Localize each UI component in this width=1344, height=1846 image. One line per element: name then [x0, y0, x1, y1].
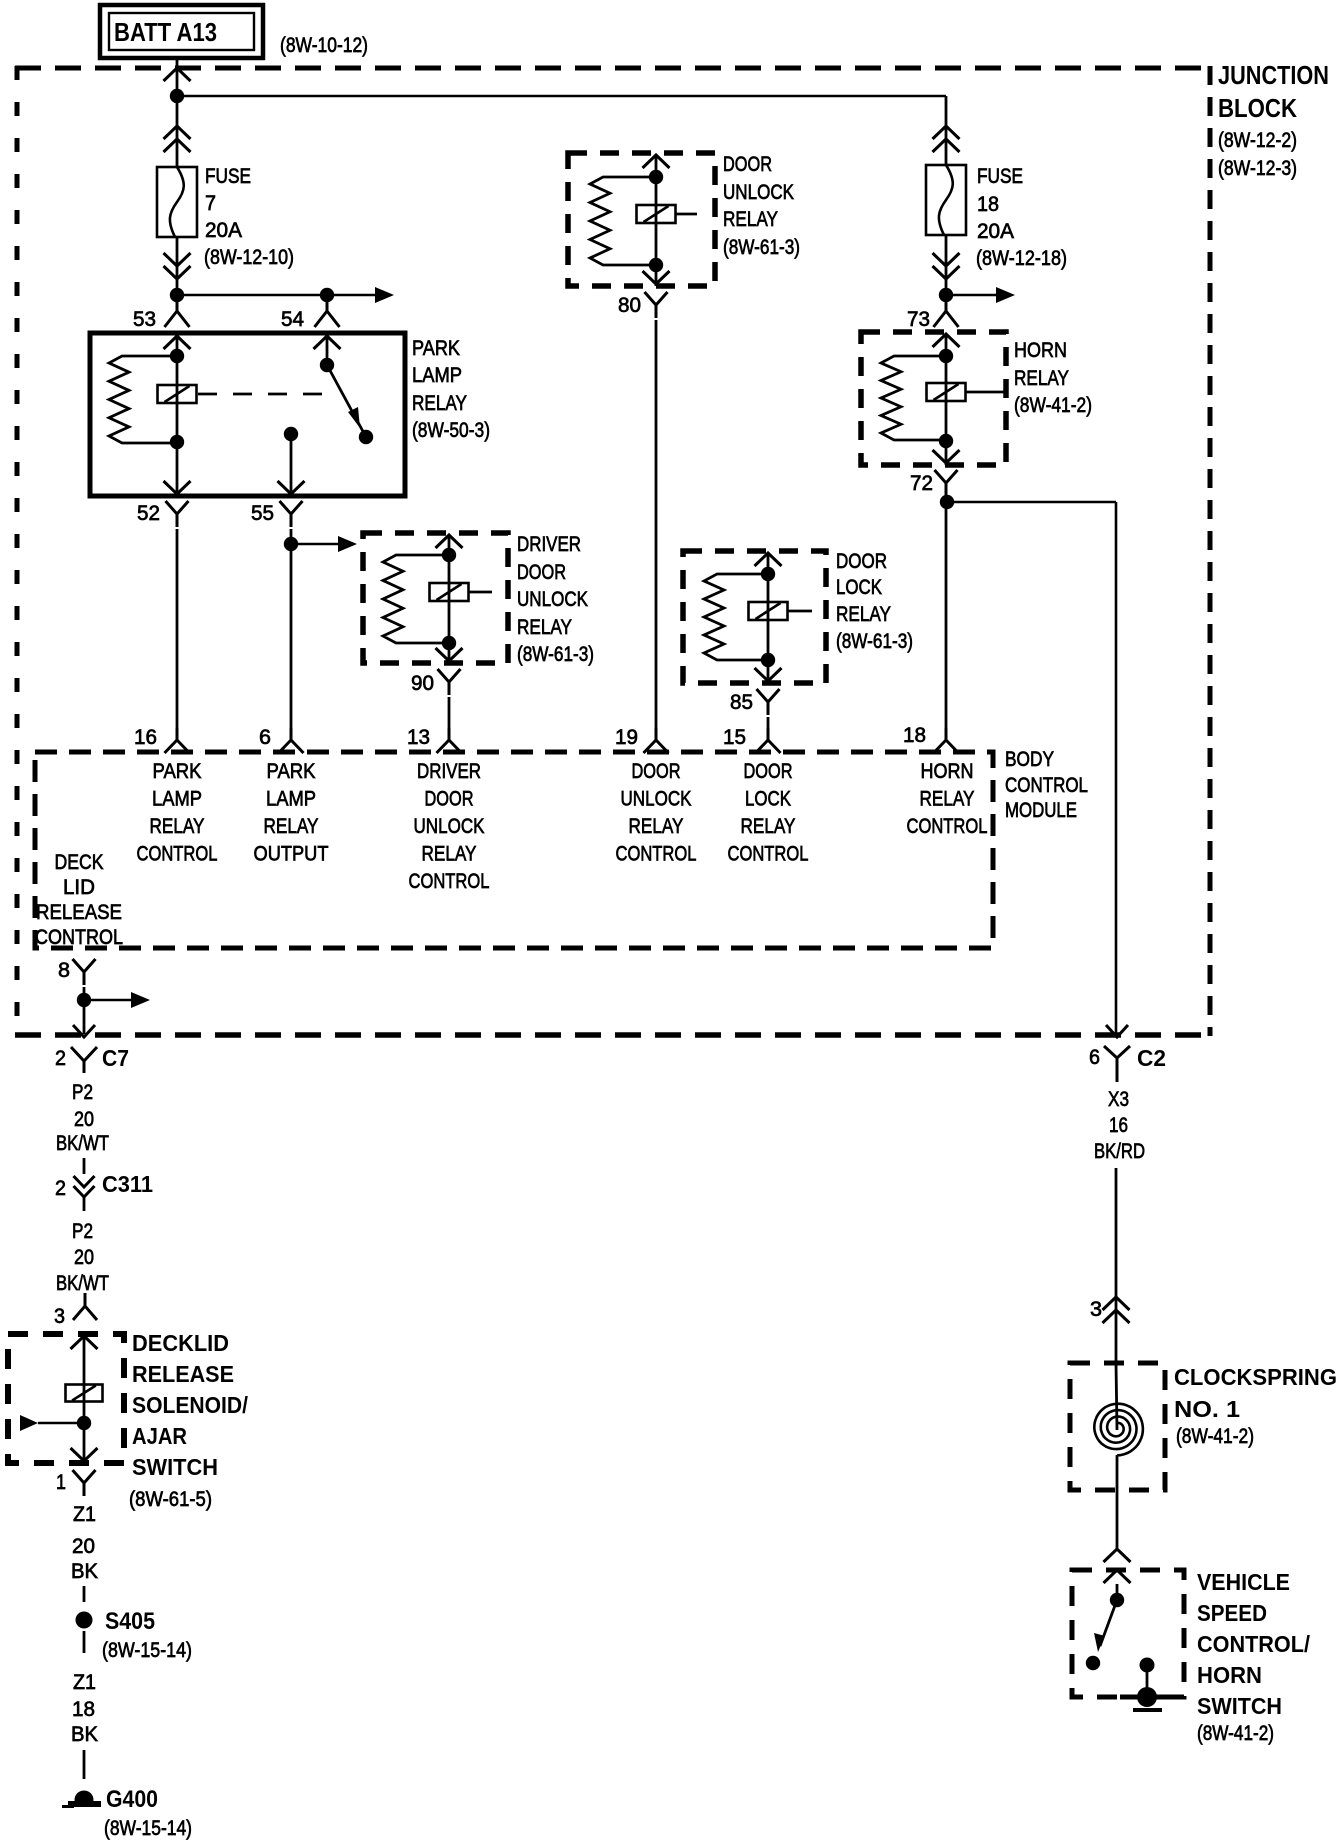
svg-text:C2: C2: [1137, 1045, 1166, 1071]
svg-text:BK/WT: BK/WT: [56, 1132, 109, 1155]
svg-text:LOCK: LOCK: [836, 576, 882, 599]
svg-text:PARK: PARK: [267, 760, 316, 783]
BCM pin 15: [723, 726, 781, 753]
svg-text:20A: 20A: [977, 220, 1014, 243]
svg-text:16: 16: [1109, 1114, 1128, 1137]
decklid release solenoid dashed box: [8, 1334, 124, 1463]
BCM pin 16: [134, 726, 190, 753]
svg-text:18: 18: [903, 724, 926, 747]
wire label P2 20 BK/WT 2: [56, 1220, 109, 1295]
decklid ajar switch arrow: [20, 1415, 84, 1431]
wire pin 72 down: [945, 498, 948, 728]
svg-text:DOOR: DOOR: [517, 561, 566, 584]
wire label X3 16 BK/RD: [1094, 1088, 1145, 1163]
svg-text:RELAY: RELAY: [741, 815, 796, 838]
svg-text:(8W-50-3): (8W-50-3): [412, 419, 490, 442]
junction dot A: [170, 89, 184, 103]
park lamp relay dashed actuator link: [198, 393, 332, 396]
pin 90: [411, 669, 461, 695]
pin 80: [618, 292, 668, 318]
svg-text:BATT A13: BATT A13: [114, 17, 217, 47]
wire pin 85 to BCM pin 15: [767, 717, 770, 728]
svg-text:(8W-15-14): (8W-15-14): [104, 1817, 192, 1840]
connector C2: [1089, 1045, 1166, 1082]
wire to S405: [83, 1586, 86, 1602]
label PARK LAMP RELAY CONTROL: [137, 760, 218, 866]
svg-text:20A: 20A: [205, 219, 242, 242]
svg-text:MODULE: MODULE: [1005, 799, 1077, 822]
pin 85: [730, 689, 780, 715]
junction dot 8: [77, 993, 91, 1007]
svg-text:PARK: PARK: [412, 337, 460, 360]
svg-text:85: 85: [730, 691, 753, 714]
svg-text:(8W-41-2): (8W-41-2): [1014, 394, 1092, 417]
dot coil top: [170, 349, 184, 363]
svg-text:DOOR: DOOR: [632, 760, 681, 783]
ground G400: [62, 1786, 158, 1813]
label DRIVER DOOR UNLOCK RELAY (8W-61-3): [517, 533, 594, 666]
svg-text:18: 18: [72, 1698, 95, 1721]
svg-text:CLOCKSPRING: CLOCKSPRING: [1174, 1364, 1337, 1390]
svg-text:CONTROL: CONTROL: [409, 870, 490, 893]
svg-text:18: 18: [977, 193, 999, 216]
svg-text:S405: S405: [105, 1608, 155, 1635]
park lamp relay pin 52 wire: [164, 442, 191, 496]
junction dot 73: [939, 288, 953, 302]
svg-text:6: 6: [259, 726, 271, 749]
BCM pin 8: [58, 959, 96, 985]
BCM pin 19: [615, 726, 669, 753]
connector C7: [55, 1045, 129, 1073]
pin 72: [910, 470, 958, 496]
wire fuse 18 to node 73: [933, 235, 960, 295]
arrow to driver door unlock relay: [291, 536, 357, 552]
svg-text:DOOR: DOOR: [425, 788, 474, 811]
svg-text:(8W-15-14): (8W-15-14): [102, 1639, 192, 1662]
svg-text:20: 20: [74, 1246, 94, 1269]
clockspring dashed box: [1070, 1363, 1165, 1490]
svg-text:CONTROL: CONTROL: [1005, 774, 1088, 797]
svg-text:HORN: HORN: [921, 760, 974, 783]
splice S405: [76, 1608, 156, 1635]
label DECKLID RELEASE SOLENOID/AJAR SWITCH (8W-61-5): [129, 1330, 249, 1511]
wire 72 to C2 column: [947, 502, 1116, 1034]
junction dot 55 branch: [284, 537, 298, 551]
svg-text:3: 3: [1090, 1298, 1102, 1321]
clockspring coil spiral: [1094, 1363, 1143, 1548]
svg-text:DOOR: DOOR: [836, 550, 887, 573]
svg-text:BK/RD: BK/RD: [1094, 1140, 1145, 1163]
decklid solenoid bottom wire: [71, 1423, 98, 1462]
svg-text:DECKLID: DECKLID: [132, 1330, 229, 1356]
wire clockspring to switch: [1104, 1549, 1131, 1583]
svg-text:UNLOCK: UNLOCK: [723, 181, 794, 204]
svg-text:DRIVER: DRIVER: [417, 760, 481, 783]
svg-text:53: 53: [133, 308, 156, 331]
label PARK LAMP RELAY OUTPUT: [254, 760, 329, 866]
svg-text:1: 1: [56, 1471, 66, 1494]
wire pin 80 to BCM pin 19: [655, 320, 658, 728]
svg-text:P2: P2: [72, 1081, 93, 1104]
svg-text:20: 20: [72, 1535, 95, 1558]
svg-text:Z1: Z1: [73, 1503, 96, 1526]
arrowhead into C7: [73, 1025, 95, 1037]
svg-text:(8W-61-5): (8W-61-5): [129, 1488, 212, 1511]
wire pin 55 down: [290, 529, 293, 728]
svg-text:RELAY: RELAY: [836, 603, 891, 626]
svg-text:2: 2: [55, 1047, 66, 1070]
fuse F18: [926, 165, 966, 235]
body control module dashed box: [35, 752, 993, 948]
svg-text:LAMP: LAMP: [152, 788, 202, 811]
svg-text:(8W-12-2): (8W-12-2): [1218, 129, 1297, 152]
pin 54: [281, 295, 340, 331]
svg-text:BK: BK: [71, 1560, 98, 1583]
svg-text:(8W-61-3): (8W-61-3): [836, 630, 913, 653]
wire pin 8 down: [83, 987, 86, 1034]
wire pin 52 to BCM pin 16: [176, 529, 179, 728]
pin 55: [251, 501, 303, 527]
pin 52: [137, 501, 189, 527]
svg-text:UNLOCK: UNLOCK: [621, 788, 692, 811]
relay K3 DOOR UNLOCK RELAY box: [568, 153, 715, 286]
label DOOR UNLOCK RELAY (8W-61-3): [723, 153, 800, 259]
pin 3 decklid: [54, 1293, 97, 1328]
svg-text:LAMP: LAMP: [412, 364, 462, 387]
label FUSE 7 20A (8W-12-10): [204, 165, 294, 269]
svg-text:AJAR: AJAR: [132, 1423, 187, 1449]
park lamp relay resistor: [109, 356, 172, 443]
svg-text:RELEASE: RELEASE: [132, 1361, 234, 1387]
svg-text:(8W-10-12): (8W-10-12): [280, 34, 368, 57]
svg-text:HORN: HORN: [1014, 339, 1067, 362]
svg-text:Z1: Z1: [73, 1671, 96, 1694]
svg-text:16: 16: [134, 726, 157, 749]
wire label Z1 20 BK: [71, 1503, 98, 1583]
label PARK LAMP RELAY (8W-50-3): [412, 337, 490, 442]
svg-text:13: 13: [407, 726, 430, 749]
label DOOR UNLOCK RELAY CONTROL: [616, 760, 697, 866]
park lamp relay pin 55 contact: [278, 427, 305, 496]
svg-text:CONTROL: CONTROL: [907, 815, 988, 838]
decklid solenoid internals: [66, 1336, 103, 1430]
svg-text:BODY: BODY: [1005, 748, 1054, 771]
svg-text:LOCK: LOCK: [745, 788, 791, 811]
svg-text:RELAY: RELAY: [422, 843, 477, 866]
wire C2 to clockspring: [1103, 1168, 1130, 1363]
svg-text:BK/WT: BK/WT: [56, 1272, 109, 1295]
park lamp relay switch: [314, 336, 374, 444]
label DOOR LOCK RELAY (8W-61-3): [836, 550, 913, 653]
door unlock relay internals: [590, 155, 697, 286]
label DOOR LOCK RELAY CONTROL: [728, 760, 809, 866]
svg-text:54: 54: [281, 308, 304, 331]
svg-text:19: 19: [615, 726, 638, 749]
dot coil bottom: [170, 435, 184, 449]
BCM pin 13: [407, 726, 462, 753]
svg-text:RELAY: RELAY: [723, 208, 778, 231]
wire BATT A13 down to junction: [164, 58, 191, 96]
relay K4 DOOR LOCK RELAY box: [683, 551, 826, 683]
svg-text:BLOCK: BLOCK: [1218, 93, 1297, 123]
wire fuse 7 to node 53: [164, 237, 191, 295]
svg-text:CONTROL/: CONTROL/: [1197, 1631, 1311, 1657]
relay K1 PARK LAMP RELAY box: [90, 333, 405, 496]
svg-text:OUTPUT: OUTPUT: [254, 843, 329, 866]
pin 53: [133, 295, 190, 331]
C2 arrowhead into connector: [1106, 1025, 1128, 1037]
svg-text:72: 72: [910, 472, 933, 495]
node BATT A13: [100, 5, 263, 58]
junction block dashed border: [15, 66, 1210, 1036]
label FUSE 18 20A (8W-12-18): [976, 165, 1067, 270]
svg-text:CONTROL: CONTROL: [728, 843, 809, 866]
pin 1: [56, 1470, 96, 1496]
svg-text:73: 73: [907, 308, 930, 331]
svg-text:RELEASE: RELEASE: [36, 901, 122, 924]
driver door unlock relay internals: [383, 535, 492, 663]
svg-text:(8W-61-3): (8W-61-3): [517, 643, 594, 666]
svg-text:SOLENOID/: SOLENOID/: [132, 1392, 249, 1418]
svg-text:7: 7: [205, 192, 216, 215]
arrow from pin 8: [84, 992, 150, 1008]
connector C311: [55, 1171, 153, 1211]
svg-text:LID: LID: [63, 876, 95, 899]
svg-text:X3: X3: [1108, 1088, 1129, 1111]
svg-text:PARK: PARK: [153, 760, 202, 783]
svg-text:DOOR: DOOR: [744, 760, 793, 783]
junction dot 54: [320, 288, 334, 302]
svg-text:UNLOCK: UNLOCK: [517, 588, 588, 611]
horn switch ground contact: [1120, 1658, 1178, 1711]
svg-text:8: 8: [58, 959, 70, 982]
svg-text:RELAY: RELAY: [264, 815, 319, 838]
wire node 53 to node 54 with arrow: [177, 287, 394, 303]
svg-text:(8W-12-10): (8W-12-10): [204, 246, 294, 269]
svg-text:VEHICLE: VEHICLE: [1197, 1569, 1290, 1595]
pin 73: [907, 295, 959, 331]
svg-text:SWITCH: SWITCH: [132, 1454, 218, 1480]
relay K5 HORN RELAY box: [861, 332, 1006, 465]
svg-text:52: 52: [137, 502, 160, 525]
label JUNCTION BLOCK: [1218, 60, 1329, 180]
svg-text:LAMP: LAMP: [266, 788, 316, 811]
svg-text:HORN: HORN: [1197, 1662, 1262, 1688]
svg-text:90: 90: [411, 672, 434, 695]
svg-text:NO. 1: NO. 1: [1174, 1396, 1240, 1422]
svg-text:RELAY: RELAY: [920, 788, 975, 811]
label BODY CONTROL MODULE: [1005, 748, 1088, 822]
svg-text:SPEED: SPEED: [1197, 1600, 1267, 1626]
label VEHICLE SPEED CONTROL/HORN SWITCH (8W-41-2): [1197, 1569, 1311, 1745]
wire below S405: [83, 1631, 86, 1653]
svg-text:80: 80: [618, 294, 641, 317]
door lock relay internals: [704, 553, 812, 683]
horn relay internals: [881, 334, 1004, 465]
wire pin 90 to BCM pin 13: [448, 697, 451, 728]
label HORN RELAY CONTROL: [907, 760, 988, 838]
wire bus to fuse 18: [933, 96, 960, 165]
svg-text:DOOR: DOOR: [723, 153, 772, 176]
svg-text:CONTROL: CONTROL: [616, 843, 697, 866]
BCM pin 6: [259, 726, 304, 753]
svg-text:CONTROL: CONTROL: [35, 926, 123, 949]
svg-text:DECK: DECK: [55, 851, 104, 874]
svg-text:RELAY: RELAY: [1014, 367, 1069, 390]
horn switch internals: [1086, 1584, 1124, 1670]
svg-text:FUSE: FUSE: [977, 165, 1023, 188]
park lamp relay coil: [158, 385, 197, 403]
svg-text:(8W-12-3): (8W-12-3): [1218, 157, 1297, 180]
svg-text:15: 15: [723, 726, 746, 749]
wire to C311: [83, 1158, 86, 1174]
svg-text:UNLOCK: UNLOCK: [414, 815, 485, 838]
relay K2 DRIVER DOOR UNLOCK RELAY box: [363, 533, 508, 663]
svg-text:P2: P2: [72, 1220, 93, 1243]
label DRIVER DOOR UNLOCK RELAY CONTROL: [409, 760, 490, 893]
fuse F7: [157, 167, 197, 237]
svg-text:3: 3: [54, 1305, 65, 1328]
svg-text:FUSE: FUSE: [205, 165, 251, 188]
svg-text:RELAY: RELAY: [150, 815, 205, 838]
svg-text:(8W-41-2): (8W-41-2): [1176, 1425, 1254, 1448]
svg-text:RELAY: RELAY: [629, 815, 684, 838]
svg-text:JUNCTION: JUNCTION: [1218, 60, 1329, 90]
svg-text:CONTROL: CONTROL: [137, 843, 218, 866]
vehicle speed control horn switch dashed box: [1072, 1570, 1184, 1697]
wire to G400: [83, 1750, 86, 1779]
junction dot 72 branch: [940, 495, 954, 509]
label CLOCKSPRING NO. 1 (8W-41-2): [1174, 1364, 1337, 1448]
svg-text:G400: G400: [106, 1786, 158, 1813]
svg-text:BK: BK: [71, 1723, 98, 1746]
wire label P2 20 BK/WT: [56, 1081, 109, 1155]
svg-text:6: 6: [1089, 1046, 1100, 1069]
svg-text:55: 55: [251, 502, 274, 525]
junction dot 53: [170, 288, 184, 302]
wire top horizontal bus: [177, 95, 946, 98]
svg-text:SWITCH: SWITCH: [1197, 1693, 1282, 1719]
svg-text:(8W-12-18): (8W-12-18): [976, 247, 1067, 270]
arrow from node 73: [946, 287, 1015, 303]
svg-text:2: 2: [55, 1177, 66, 1200]
svg-text:RELAY: RELAY: [517, 616, 572, 639]
svg-text:C7: C7: [102, 1045, 129, 1071]
svg-text:DRIVER: DRIVER: [517, 533, 581, 556]
wire label Z1 18 BK: [71, 1671, 98, 1746]
svg-text:20: 20: [74, 1108, 94, 1131]
label HORN RELAY (8W-41-2): [1014, 339, 1092, 417]
svg-text:(8W-41-2): (8W-41-2): [1197, 1722, 1274, 1745]
BCM pin 18: [903, 724, 959, 753]
label DECK LID RELEASE CONTROL: [35, 851, 123, 949]
park lamp relay coil branch: [164, 336, 191, 442]
wire to fuse 7: [164, 96, 191, 167]
svg-text:(8W-61-3): (8W-61-3): [723, 236, 800, 259]
svg-text:C311: C311: [102, 1171, 153, 1197]
svg-text:RELAY: RELAY: [412, 392, 467, 415]
